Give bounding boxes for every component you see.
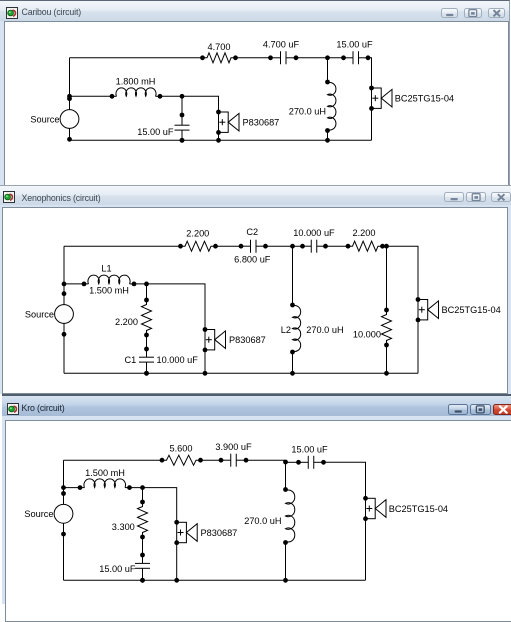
window "Xenophonics (circuit)" xyxy=(0,185,511,394)
value label 5.600 xyxy=(170,443,193,453)
node junction middle branch / RC shunt xyxy=(140,485,145,490)
wire C2 to junction xyxy=(266,245,303,247)
capacitor 4.700 uF xyxy=(268,51,298,64)
wire resistor to capacitor C2 xyxy=(216,245,242,247)
value label 10.000 uF (shunt) xyxy=(157,355,199,365)
wire source bottom to ground rail xyxy=(69,128,71,140)
wire source bottom to ground rail xyxy=(63,523,65,580)
ref label C2 xyxy=(246,227,258,237)
value label Source xyxy=(24,509,53,519)
value label 6.800 uF xyxy=(234,255,271,265)
svg-text:15.00 uF: 15.00 uF xyxy=(99,564,136,574)
value label Source xyxy=(25,309,54,319)
wire resistor to capacitor xyxy=(236,57,271,59)
wire top rail from source to resistor xyxy=(70,57,203,59)
node shunt cap ground junction xyxy=(144,371,149,376)
wire shunt resistor to capacitor xyxy=(142,537,144,555)
wire top rail from source to resistor xyxy=(64,459,163,461)
wire middle branch source to inductor xyxy=(70,95,113,97)
node shunt cap ground junction xyxy=(140,578,145,583)
value label 4.700 uF xyxy=(263,39,300,49)
wire top rail from source to resistor xyxy=(64,245,181,247)
wire capacitor to resistor xyxy=(326,245,349,247)
wire inductor to corner, down to woofer xyxy=(160,96,219,112)
value label 270.0 uH xyxy=(244,516,281,526)
wire 270uH inductor to ground rail xyxy=(327,131,329,141)
resistor 3.300 (shunt) xyxy=(138,500,148,540)
value label 3.300 xyxy=(112,522,135,532)
value label 15.00 uF (top) xyxy=(336,39,373,49)
wire source vertical (top rail to source top) xyxy=(69,58,71,110)
value label Source xyxy=(30,114,59,124)
wire junction to series capacitor xyxy=(286,461,299,463)
speaker BC25TG15-04 (tweeter) xyxy=(416,297,439,322)
inductor L1 1.500 mH xyxy=(82,275,137,286)
resistor 5.600 xyxy=(160,455,203,465)
ref label L2 xyxy=(281,325,291,335)
value label 3.900 uF xyxy=(215,442,252,452)
node L2 ground junction xyxy=(290,371,295,376)
value label 2.200 (series right) xyxy=(353,228,376,238)
node junction top rail / 10ohm branch xyxy=(384,244,389,249)
wire capacitor to junction xyxy=(246,459,286,461)
source V1 xyxy=(54,485,73,536)
capacitor 15.00 uF (shunt) xyxy=(175,113,190,143)
value label BC25TG15-04 xyxy=(389,504,448,514)
wire woofer bottom to ground rail xyxy=(176,543,178,581)
wire inductor to corner, down to woofer xyxy=(130,488,177,523)
wire shunt resistor to capacitor C1 xyxy=(146,335,148,349)
node 10ohm ground junction xyxy=(384,371,389,376)
wire top rail corner down to tweeter xyxy=(324,462,366,498)
value label 10.000 uF (series) xyxy=(293,228,335,238)
wire top rail corner down to tweeter xyxy=(368,58,372,88)
wire tweeter bottom to ground rail xyxy=(365,519,367,581)
wire capacitor to junction to capacitor xyxy=(296,57,344,59)
wire junction down to shunt resistor xyxy=(146,284,148,300)
value label BC25TG15-04 xyxy=(395,93,454,103)
ref label L1 xyxy=(101,264,111,274)
value label 270.0 uH xyxy=(289,106,326,116)
node junction top rail / 270uH branch xyxy=(283,460,288,465)
value label 1.500 mH xyxy=(85,468,125,478)
wire woofer bottom to ground rail xyxy=(218,132,220,140)
value label 2.200 (shunt) xyxy=(115,317,138,327)
ref label C1 xyxy=(125,355,137,365)
capacitor C2 6.800 uF xyxy=(239,240,268,253)
wire junction down to 270uH inductor xyxy=(327,58,329,82)
value label 1.500 mH xyxy=(89,286,129,296)
speaker P830687 (woofer) xyxy=(216,110,239,135)
capacitor 10.000 uF (series) xyxy=(300,240,328,253)
speaker BC25TG15-04 (tweeter) xyxy=(363,496,386,521)
svg-text:BC25TG15-04: BC25TG15-04 xyxy=(389,504,448,514)
wire junction down to 270uH inductor xyxy=(285,462,287,490)
value label BC25TG15-04 xyxy=(442,305,501,315)
value label P830687 xyxy=(201,528,238,538)
node junction top rail / L2 branch xyxy=(290,244,295,249)
value label P830687 xyxy=(229,335,266,345)
value label 270.0 uH xyxy=(306,325,343,335)
value label P830687 xyxy=(243,118,280,128)
wire junction down to shunt resistor xyxy=(142,488,144,502)
capacitor 15.00 uF (top) xyxy=(341,51,370,64)
node woofer-ground junction xyxy=(216,138,221,143)
value label 15.00 uF (series) xyxy=(291,444,328,454)
node 270uH ground junction xyxy=(283,578,288,583)
window "Caribou (circuit)" xyxy=(0,0,510,186)
svg-text:P830687: P830687 xyxy=(201,528,238,538)
wire tweeter bottom to ground rail xyxy=(417,320,419,373)
node junction middle branch / shunt cap xyxy=(180,94,185,99)
value label 1.800 mH xyxy=(116,76,156,86)
capacitor 15.00 uF (series) xyxy=(296,456,326,469)
node woofer-ground junction xyxy=(203,371,208,376)
inductor 270.0 uH xyxy=(283,487,295,545)
capacitor C1 10.000 uF (shunt) xyxy=(139,347,154,376)
speaker P830687 (woofer) xyxy=(203,327,226,352)
capacitor 3.900 uF xyxy=(219,454,249,467)
resistor 2.200 (series top) xyxy=(178,241,218,251)
inductor L2 270.0 uH xyxy=(290,303,301,355)
speaker P830687 (woofer) xyxy=(174,520,197,545)
wire junction down to 10ohm resistor xyxy=(386,246,388,310)
value label 4.700 xyxy=(208,42,231,52)
wire tweeter bottom to ground rail xyxy=(371,108,373,140)
resistor 4.700 xyxy=(200,53,238,63)
source V1 xyxy=(60,94,79,142)
inductor 1.800 mH xyxy=(110,88,163,99)
wire resistor to capacitor xyxy=(201,459,222,461)
svg-text:15.00 uF: 15.00 uF xyxy=(291,444,328,454)
wire 10ohm resistor to ground rail xyxy=(386,345,388,373)
node junction middle branch / RC shunt xyxy=(144,282,149,287)
speaker BC25TG15-04 (tweeter) xyxy=(369,86,392,111)
resistor 10.000 (shunt) xyxy=(382,308,392,348)
wire 270uH inductor to ground rail xyxy=(285,543,287,581)
wire woofer bottom to ground rail xyxy=(204,350,206,373)
wire source bottom to ground rail xyxy=(63,323,65,373)
wire bottom ground rail xyxy=(64,372,418,374)
svg-text:Source: Source xyxy=(24,509,53,519)
wire middle branch source to inductor xyxy=(64,487,81,489)
svg-text:270.0 uH: 270.0 uH xyxy=(244,516,281,526)
wire junction down to inductor L2 xyxy=(292,246,294,305)
wire L1 to corner, down to woofer xyxy=(134,284,205,330)
value label 15.00 uF (shunt) xyxy=(137,127,174,137)
wire bottom ground rail xyxy=(70,139,372,141)
node shunt cap ground junction xyxy=(180,138,185,143)
wire junction down to shunt capacitor xyxy=(181,96,183,115)
wire source vertical (top rail to source top) xyxy=(63,246,65,305)
svg-text:3.900 uF: 3.900 uF xyxy=(215,442,252,452)
node woofer-ground junction xyxy=(174,578,179,583)
svg-text:3.300: 3.300 xyxy=(112,522,135,532)
window "Kro (circuit)" xyxy=(2,394,511,604)
wire top rail corner down to tweeter xyxy=(383,246,419,299)
node junction top rail / 270uH branch xyxy=(325,55,330,60)
inductor 1.500 mH xyxy=(78,479,132,490)
wire bottom ground rail xyxy=(64,579,366,581)
node 270uH ground junction xyxy=(325,138,330,143)
svg-text:1.500 mH: 1.500 mH xyxy=(85,468,125,478)
wire L2 to ground rail xyxy=(292,352,294,373)
resistor 2.200 (series right) xyxy=(346,241,385,251)
value label 10.000 xyxy=(353,329,381,339)
inductor 270.0 uH xyxy=(325,80,336,133)
source V1 xyxy=(55,282,74,337)
capacitor 15.00 uF (shunt) xyxy=(135,553,150,583)
value label 15.00 uF (shunt) xyxy=(99,564,136,574)
wire middle branch source to inductor L1 xyxy=(64,283,84,285)
wire source vertical (top rail to source top) xyxy=(63,460,65,504)
svg-text:5.600: 5.600 xyxy=(170,443,193,453)
resistor 2.200 (shunt) xyxy=(142,298,152,338)
value label 2.200 (series top) xyxy=(186,228,209,238)
